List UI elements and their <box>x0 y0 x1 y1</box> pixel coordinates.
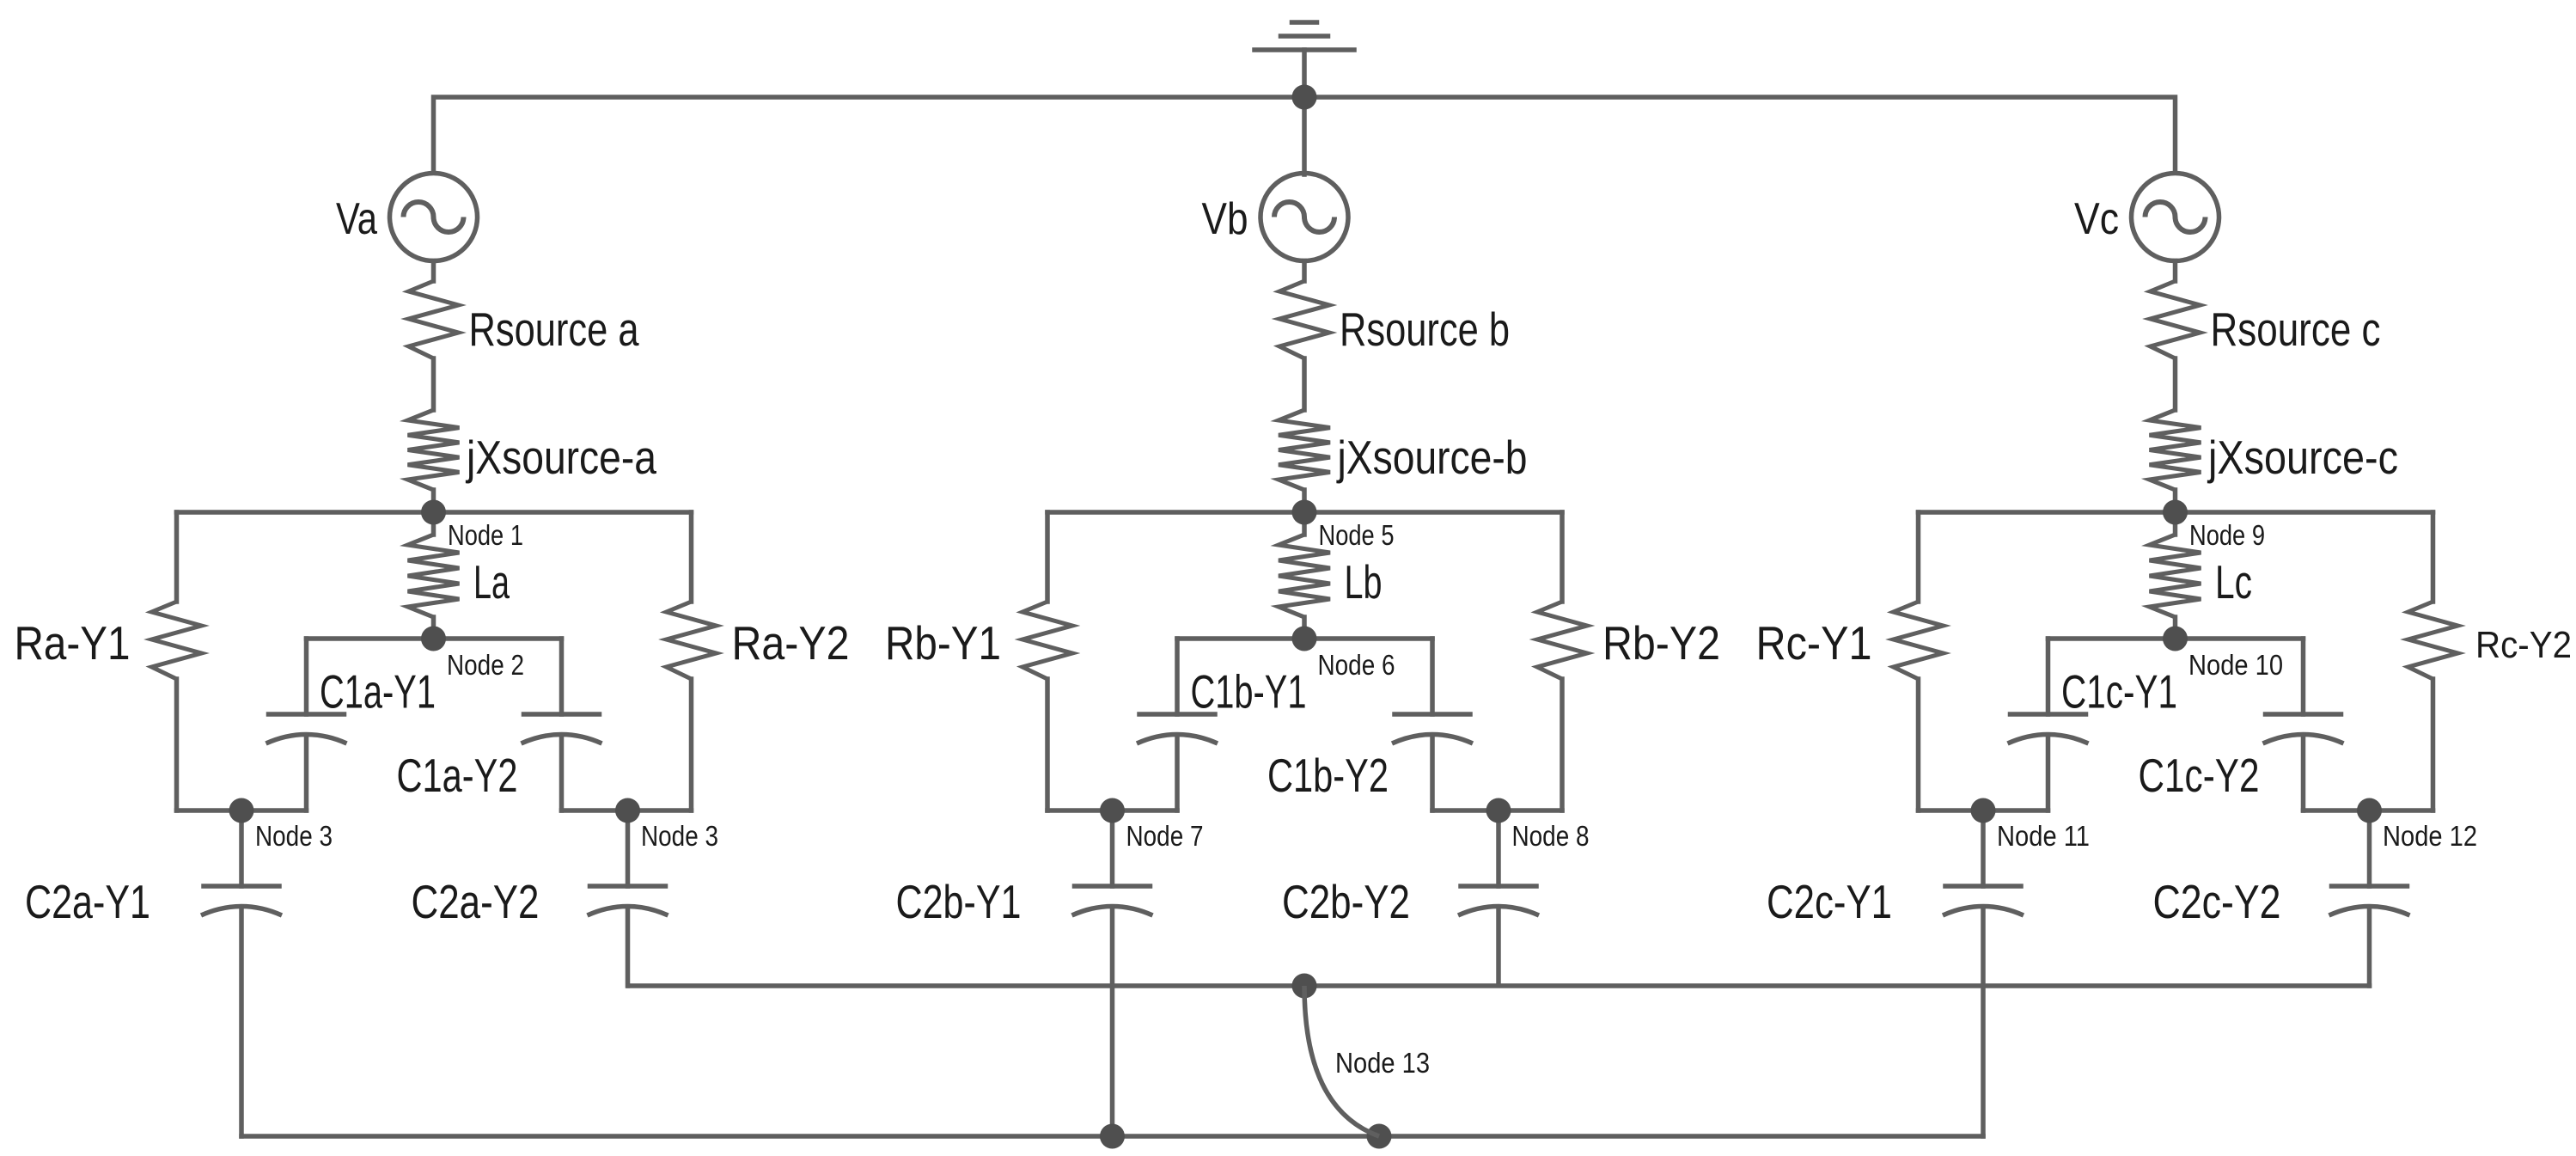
svg-text:Node 10: Node 10 <box>2188 649 2283 681</box>
svg-text:C1b-Y1: C1b-Y1 <box>1191 665 1307 719</box>
svg-text:jXsource-a: jXsource-a <box>465 431 656 484</box>
svg-text:La: La <box>473 555 510 609</box>
svg-text:Ra-Y1: Ra-Y1 <box>15 616 131 670</box>
svg-text:Rsource b: Rsource b <box>1340 303 1510 356</box>
svg-text:Rc-Y2: Rc-Y2 <box>2475 624 2572 666</box>
svg-text:Node 6: Node 6 <box>1318 649 1395 681</box>
svg-text:C2a-Y2: C2a-Y2 <box>412 875 540 928</box>
svg-text:Va: Va <box>336 194 377 244</box>
svg-text:Rb-Y1: Rb-Y1 <box>885 616 1001 670</box>
svg-text:Rsource c: Rsource c <box>2211 303 2381 356</box>
svg-text:C1b-Y2: C1b-Y2 <box>1267 749 1389 802</box>
svg-text:Node 12: Node 12 <box>2383 820 2477 852</box>
svg-text:Node 7: Node 7 <box>1126 820 1204 852</box>
svg-text:Ra-Y2: Ra-Y2 <box>732 616 850 670</box>
svg-text:Node 2: Node 2 <box>447 649 524 681</box>
svg-text:C1c-Y2: C1c-Y2 <box>2139 749 2260 802</box>
svg-text:C2c-Y2: C2c-Y2 <box>2153 875 2281 928</box>
svg-text:C2a-Y1: C2a-Y1 <box>25 875 150 928</box>
svg-text:C2b-Y2: C2b-Y2 <box>1282 875 1410 928</box>
svg-text:C2b-Y1: C2b-Y1 <box>896 875 1022 928</box>
svg-text:Node 3: Node 3 <box>255 820 333 852</box>
svg-text:C1c-Y1: C1c-Y1 <box>2061 665 2177 719</box>
svg-text:Rc-Y1: Rc-Y1 <box>1756 616 1872 670</box>
svg-text:Vc: Vc <box>2074 194 2119 244</box>
svg-text:Node 1: Node 1 <box>448 519 523 551</box>
svg-text:C2c-Y1: C2c-Y1 <box>1767 875 1892 928</box>
svg-text:Node 9: Node 9 <box>2189 519 2265 551</box>
svg-text:Node 8: Node 8 <box>1512 820 1590 852</box>
svg-text:Vb: Vb <box>1202 194 1248 244</box>
svg-text:C1a-Y1: C1a-Y1 <box>320 665 436 719</box>
svg-text:Rsource a: Rsource a <box>469 303 639 356</box>
svg-text:jXsource-b: jXsource-b <box>1336 431 1528 484</box>
svg-text:Node 3: Node 3 <box>641 820 718 852</box>
svg-text:Lc: Lc <box>2215 555 2252 609</box>
svg-text:Node 11: Node 11 <box>1997 820 2090 852</box>
svg-text:C1a-Y2: C1a-Y2 <box>397 749 518 802</box>
svg-text:Lb: Lb <box>1345 555 1383 609</box>
svg-text:jXsource-c: jXsource-c <box>2207 431 2398 484</box>
svg-text:Node 13: Node 13 <box>1335 1047 1430 1079</box>
svg-text:Node 5: Node 5 <box>1319 519 1395 551</box>
svg-text:Rb-Y2: Rb-Y2 <box>1602 616 1720 670</box>
